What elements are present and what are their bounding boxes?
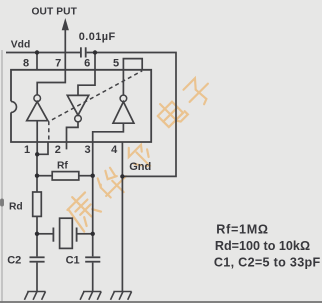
wire inv1 output to pin7 bbox=[37, 69, 65, 95]
char 康 bbox=[61, 188, 104, 231]
svg-text:7: 7 bbox=[55, 57, 61, 69]
scan artifact bottom edge bbox=[0, 301, 322, 303]
op-amp inverter U1C triangle bbox=[113, 102, 134, 124]
wire rail to outer right edge, down, bottom edge to Gnd node bbox=[87, 53, 176, 177]
char 电 bbox=[153, 95, 188, 130]
op-amp inverter U1A bubble bbox=[34, 95, 41, 102]
wire node A down to Rd bbox=[36, 154, 38, 192]
crystal X1 right plate bbox=[76, 228, 78, 242]
svg-text:6: 6 bbox=[84, 57, 90, 69]
wire pin6 to inv2 input bbox=[78, 69, 95, 95]
wire crystal right to node B branch bbox=[78, 233, 93, 235]
node dot pin8/Vdd bbox=[35, 50, 39, 54]
node dot Rf left bbox=[35, 174, 39, 178]
node B dot Rf right bbox=[91, 174, 95, 178]
wire C2 to ground bbox=[36, 263, 38, 292]
wire pin8 stub bbox=[36, 53, 38, 70]
wire dashed alternate connection bbox=[49, 71, 142, 140]
wire pin4 to Gnd node and ground bbox=[121, 142, 123, 291]
svg-text:1: 1 bbox=[24, 144, 30, 156]
wire Vdd rail left bbox=[6, 52, 80, 54]
capacitor C2 bbox=[30, 256, 45, 258]
wire node C to C2 bbox=[36, 234, 38, 257]
wire node A L-link bbox=[37, 142, 48, 154]
node dot crystal right bbox=[91, 232, 95, 236]
svg-text:2: 2 bbox=[55, 144, 61, 156]
node dot crystal left bbox=[35, 232, 39, 236]
wire inv3 output to pin5 bbox=[122, 70, 124, 95]
svg-text:Rd: Rd bbox=[9, 202, 23, 213]
wire node C to crystal left bbox=[37, 233, 53, 235]
wire inv2 output to pin2 stub bbox=[67, 122, 79, 149]
wire pin5 jumper bbox=[123, 59, 142, 71]
op-amp inverter U1B triangle bbox=[67, 95, 88, 115]
node dot Gnd bbox=[120, 174, 124, 178]
wire inv3 input to pin3 bbox=[93, 123, 124, 142]
svg-text:Rf: Rf bbox=[57, 161, 68, 172]
op-amp inverter U1C bubble bbox=[120, 95, 127, 102]
wire Rf right lead bbox=[79, 175, 93, 177]
crystal X1 body bbox=[60, 218, 73, 248]
wire inv1 input to node A bbox=[36, 121, 38, 155]
svg-text:Gnd: Gnd bbox=[129, 161, 151, 173]
svg-text:C2: C2 bbox=[7, 255, 21, 267]
ground under C2 bbox=[24, 292, 45, 300]
char 尔 bbox=[123, 139, 156, 172]
svg-text:Rf=1MΩ: Rf=1MΩ bbox=[216, 223, 268, 237]
op-amp inverter U1A triangle bbox=[27, 102, 48, 121]
svg-text:Rd=100 to 10kΩ: Rd=100 to 10kΩ bbox=[215, 239, 310, 253]
capacitor C1 bbox=[85, 256, 100, 258]
arrow head OUT PUT bbox=[62, 18, 69, 30]
resistor Rd bbox=[33, 192, 42, 216]
watermark 康华尔电子 (hand-drawn strokes) bbox=[61, 74, 216, 231]
node dot pin6/rail bbox=[93, 50, 97, 54]
wire Rf left lead bbox=[37, 175, 52, 177]
svg-text:C1: C1 bbox=[66, 255, 80, 267]
resistor Rf bbox=[52, 172, 79, 180]
svg-text:0.01µF: 0.01µF bbox=[79, 31, 116, 43]
svg-text:C1, C2=5 to 33pF: C1, C2=5 to 33pF bbox=[214, 256, 321, 270]
wire C1 to ground bbox=[92, 263, 94, 292]
capacitor 0.01uF bbox=[80, 47, 82, 57]
IC notch bbox=[11, 101, 17, 112]
crystal X1 left plate bbox=[52, 228, 54, 242]
svg-text:Vdd: Vdd bbox=[11, 40, 30, 51]
wire pin3 down through node B to C1 bbox=[92, 142, 94, 256]
svg-text:4: 4 bbox=[111, 144, 118, 156]
wire Rd bottom to node C bbox=[36, 216, 38, 233]
svg-text:5: 5 bbox=[113, 57, 119, 69]
scan artifact left edge bbox=[1, 50, 2, 303]
IC box U1 bbox=[11, 70, 151, 142]
ground under Gnd wire bbox=[111, 292, 132, 300]
wire output pin7 to arrow bbox=[64, 30, 66, 69]
node A dot bbox=[35, 152, 39, 156]
wire pin6 stub bbox=[94, 53, 96, 70]
char 华 bbox=[93, 163, 133, 203]
op-amp inverter U1B bubble bbox=[75, 115, 82, 122]
char 子 bbox=[180, 74, 216, 110]
svg-text:8: 8 bbox=[23, 57, 29, 69]
svg-text:3: 3 bbox=[84, 144, 90, 156]
svg-text:OUT PUT: OUT PUT bbox=[32, 7, 78, 18]
ground under C1 bbox=[80, 292, 101, 300]
